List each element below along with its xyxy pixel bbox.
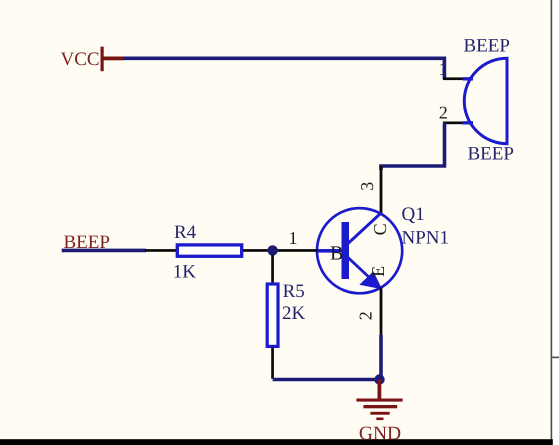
svg-text:NPN1: NPN1 [402,228,450,249]
svg-text:C: C [370,223,390,235]
svg-text:2: 2 [439,102,448,122]
resistor R4 pin 2 / wire to base [243,249,318,252]
svg-text:E: E [368,266,388,277]
power port GND symbol [356,380,402,421]
speaker LS pin 2 [443,122,471,125]
wire R5 to ground junction [273,378,380,382]
wire emitter to ground junction [379,335,383,380]
transistor Q1 pin 3 (collector pin) [380,166,383,214]
svg-text:1K: 1K [173,262,197,283]
resistor R4 body [177,245,241,256]
sheet right border line [551,0,553,440]
wire VCC to speaker pin 1 [123,58,444,79]
svg-text:GND: GND [359,423,401,444]
resistor R5 pin 2 [271,348,274,379]
transistor Q1 body circle [317,208,402,293]
resistor R5 body [267,284,278,346]
transistor Q1 pin 2 (emitter pin) [380,288,383,338]
svg-text:2: 2 [356,311,376,320]
transistor Q1 emitter diagonal [348,258,372,281]
wire speaker pin 2 to transistor collector [381,123,445,170]
junction node at ground [374,374,384,384]
resistor R4 pin 1 [145,249,176,252]
junction node at R4/R5/base [267,245,277,255]
sheet border tick [552,357,559,359]
power port VCC bar [101,47,125,72]
speaker LS1 body [464,58,507,144]
svg-text:BEEP: BEEP [464,36,510,57]
transistor Q1 base bar [342,222,350,279]
svg-text:VCC: VCC [61,49,100,70]
svg-text:1: 1 [289,228,298,248]
speaker pin 1 inner nub [463,77,474,80]
svg-text:R4: R4 [174,222,197,243]
transistor Q1 collector diagonal [348,213,381,244]
svg-text:3: 3 [357,182,377,191]
resistor R5 pin 1 [271,255,274,284]
wire BEEP input [62,249,146,253]
transistor Q1 base inner line [316,249,342,253]
svg-text:2K: 2K [282,303,306,324]
svg-text:Q1: Q1 [402,204,425,225]
svg-text:BEEP: BEEP [468,143,514,164]
svg-text:B: B [330,243,343,265]
transistor Q1 emitter arrow [361,273,381,289]
svg-text:R5: R5 [283,281,305,302]
speaker pin 2 inner nub [463,121,474,124]
speaker LS pin 1 [443,77,471,80]
sheet bottom black band [0,439,553,445]
